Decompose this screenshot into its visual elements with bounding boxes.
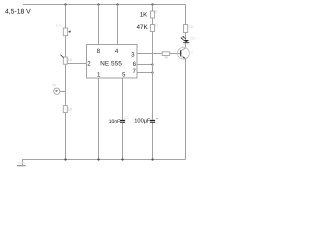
junction ground rail / capacitor C1	[121, 158, 123, 160]
wire pin 8 to +V rail	[98, 5, 100, 45]
resistor R2 47K	[150, 25, 154, 32]
svg-text:6: 6	[133, 61, 137, 68]
wire capacitor C1 to ground rail	[122, 123, 124, 160]
resistor R6 (upper divider)	[63, 28, 71, 36]
svg-text:10k: 10k	[55, 22, 61, 27]
junction top rail / pin 4 wire	[116, 3, 118, 5]
svg-text:4,5-18 V: 4,5-18 V	[5, 9, 31, 16]
junction pin 6 / timing column	[151, 63, 153, 65]
wire pin 4 to +V rail	[117, 5, 119, 45]
wire pin 1 to ground rail	[98, 78, 100, 160]
capacitor C2 100µF	[150, 120, 155, 122]
svg-text:3: 3	[131, 51, 135, 58]
junction top rail / pin 8 wire	[97, 3, 99, 5]
wire pin 6 to timing node	[137, 64, 153, 66]
wire top +V rail	[23, 4, 186, 6]
base resistor R5	[162, 52, 170, 56]
svg-text:2: 2	[87, 60, 91, 67]
svg-text:7: 7	[132, 68, 136, 75]
svg-text:D1: D1	[190, 35, 196, 40]
IC U1 NE 555	[87, 45, 138, 79]
capacitor C1 10nF	[120, 120, 125, 122]
wire pin 3 to base resistor	[137, 53, 162, 55]
svg-text:1k: 1k	[189, 24, 193, 29]
wire bottom ground rail	[22, 159, 186, 161]
wire timing column middle	[152, 32, 154, 120]
wire right column from +V rail to R4	[185, 5, 187, 25]
ground symbol	[17, 160, 26, 166]
wire LED cathode to transistor collector	[185, 43, 187, 48]
resistor R4 (LED series)	[184, 25, 188, 33]
svg-text:1K: 1K	[140, 12, 147, 19]
svg-text:8: 8	[97, 48, 101, 55]
svg-text:1k: 1k	[68, 106, 72, 111]
wire base resistor to transistor base	[170, 53, 181, 55]
junction pin 7 / timing column	[151, 71, 153, 73]
wire R4 to LED anode	[185, 33, 187, 41]
junction top rail / resistor chain	[151, 3, 153, 5]
junction ground rail / left column	[64, 158, 66, 160]
wire between R1 and R2	[152, 18, 154, 25]
resistor R1 1K	[150, 11, 154, 18]
svg-text:C1: C1	[124, 115, 130, 120]
junction ground rail / capacitor C2	[151, 158, 153, 160]
svg-text:1k: 1k	[68, 57, 72, 62]
wire emitter to ground rail	[185, 59, 187, 160]
svg-text:R: R	[155, 23, 158, 28]
resistor R3 (lower divider element)	[63, 106, 67, 113]
svg-text:M: M	[52, 83, 55, 88]
sensor M (circle component)	[54, 88, 60, 94]
svg-text:5: 5	[122, 72, 126, 79]
junction top rail / left divider column	[64, 3, 66, 5]
LED D1	[181, 36, 190, 43]
transistor T1 (NPN)	[178, 47, 190, 59]
wire left column top segment	[65, 5, 67, 29]
wire capacitor C2 to ground rail	[152, 123, 154, 160]
wire pin 7 to timing node	[137, 72, 153, 74]
svg-text:1k: 1k	[164, 54, 168, 59]
svg-text:4: 4	[115, 48, 119, 55]
wire left column upper segment	[65, 36, 67, 57]
svg-text:47K: 47K	[136, 24, 148, 31]
junction ground rail / pin 1 wire	[97, 158, 99, 160]
wire pin 5 to capacitor C1	[122, 78, 124, 120]
svg-text:1: 1	[97, 72, 101, 79]
svg-text:100µF: 100µF	[134, 119, 151, 125]
wire left column lower segment	[65, 113, 67, 160]
svg-text:NE 555: NE 555	[100, 61, 122, 68]
wire pin 2 to divider node	[66, 63, 87, 65]
potentiometer P1 (upper divider element)	[60, 55, 67, 64]
wire sensor stub	[60, 91, 66, 93]
svg-text:R: R	[155, 9, 158, 14]
svg-text:10nF: 10nF	[109, 119, 120, 125]
wire timing column top	[152, 5, 154, 12]
wire left column between potentiometer and sensor tap	[65, 64, 67, 105]
